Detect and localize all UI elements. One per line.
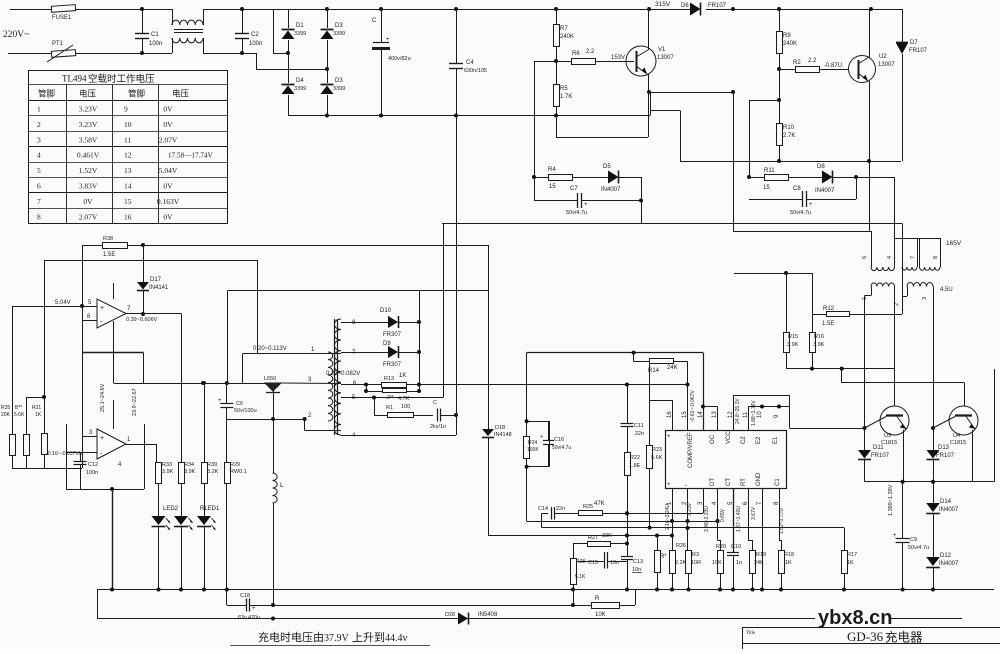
svg-text:R23: R23	[652, 447, 662, 453]
resistor R 10K	[573, 590, 575, 606]
svg-text:1n: 1n	[736, 560, 742, 566]
svg-text:8: 8	[933, 256, 939, 259]
svg-text:+: +	[584, 202, 588, 208]
transformer T1 core	[334, 319, 336, 435]
svg-text:630n/105: 630n/105	[464, 68, 487, 74]
svg-text:1.82~1.77U: 1.82~1.77U	[779, 508, 785, 534]
svg-text:+: +	[252, 606, 256, 612]
svg-text:400v/82u: 400v/82u	[388, 56, 411, 62]
diode D8 IN4007	[822, 171, 833, 184]
wire note underline	[230, 645, 430, 647]
wire Vcc rail y290.5	[228, 290, 488, 292]
svg-text:3399: 3399	[333, 86, 345, 92]
svg-text:0.461V: 0.461V	[77, 151, 100, 160]
svg-text:-0.61~-0.067V: -0.61~-0.067V	[690, 390, 696, 422]
svg-text:R7: R7	[560, 26, 568, 32]
wire -V rail jog to GND bus	[650, 92, 652, 116]
svg-text:C18: C18	[240, 593, 250, 599]
svg-text:C4: C4	[466, 60, 474, 66]
fuse FUSE1	[51, 5, 75, 13]
svg-text:R4: R4	[548, 167, 556, 173]
svg-text:3.9K: 3.9K	[787, 342, 799, 348]
transformer T2 secondary G2	[907, 282, 933, 286]
svg-text:7: 7	[37, 197, 41, 206]
resistor R29 RW0.1	[226, 419, 228, 462]
wire D5 node down to bus	[641, 177, 643, 224]
diode D7 FR107	[902, 9, 904, 42]
svg-text:4.5U: 4.5U	[940, 287, 953, 293]
resistor R16 3.9K	[812, 273, 814, 332]
diode D28 IN5408	[458, 613, 468, 625]
svg-text:3399: 3399	[333, 31, 345, 37]
wire bottom AC line	[8, 53, 51, 55]
svg-text:22n: 22n	[635, 431, 644, 437]
resistor R27 33K	[573, 543, 587, 545]
wire x488 feed column	[488, 245, 490, 429]
wire pin15 feedback line y384.5	[419, 384, 688, 386]
wire 5.04V rail to R35	[12, 306, 82, 308]
svg-text:C16: C16	[554, 437, 564, 443]
svg-text:R35: R35	[1, 405, 10, 411]
wire pin12 VCC stub	[733, 395, 735, 430]
svg-text:R10: R10	[783, 125, 795, 131]
svg-text:0.39~0.606V: 0.39~0.606V	[126, 317, 158, 323]
svg-text:GD-36: GD-36	[847, 629, 884, 644]
svg-text:V1: V1	[658, 47, 666, 53]
svg-text:23.9~22.67: 23.9~22.67	[132, 388, 138, 416]
svg-text:10R: 10R	[691, 560, 701, 566]
svg-text:IN4007: IN4007	[601, 187, 621, 193]
wire R24 column	[526, 353, 528, 436]
svg-text:DT: DT	[710, 478, 716, 486]
svg-text:20K: 20K	[1, 412, 11, 418]
svg-text:50v/100u: 50v/100u	[234, 408, 257, 414]
LED LED1	[152, 516, 166, 525]
svg-text:9: 9	[124, 105, 128, 114]
capacitor C13 10n	[621, 556, 633, 558]
svg-text:R1: R1	[386, 405, 393, 411]
resistor R33 3.9K	[158, 462, 160, 463]
wire R38 to x488 drop	[143, 245, 488, 247]
svg-text:+: +	[809, 202, 813, 208]
wire op2 output pin1	[126, 444, 157, 446]
wire D8 node down (x894)	[856, 177, 895, 179]
resistor R25 47K	[555, 513, 579, 515]
svg-text:R11: R11	[764, 168, 775, 174]
svg-text:D7: D7	[910, 40, 918, 46]
svg-text:5: 5	[37, 166, 41, 175]
wire pin15 stub	[687, 385, 689, 431]
wire rectified node x419	[419, 291, 421, 392]
wire T2 top connections	[895, 238, 941, 240]
svg-text:33K: 33K	[602, 533, 612, 539]
transformer T2 secondary G1	[871, 283, 895, 287]
wire +V rail	[327, 9, 456, 11]
wire bus y605	[273, 605, 573, 607]
svg-text:管脚: 管脚	[128, 89, 145, 99]
wire V2 ground return y161	[680, 161, 901, 163]
svg-text:10n: 10n	[610, 560, 619, 566]
svg-text:C15: C15	[588, 560, 598, 566]
svg-text:100K: 100K	[527, 447, 539, 453]
svg-text:3.23V: 3.23V	[687, 502, 693, 516]
svg-text:C8: C8	[793, 186, 801, 192]
diode D13 FR107	[933, 428, 935, 450]
wire pin7 GND column	[762, 488, 764, 590]
svg-text:R25: R25	[583, 504, 593, 510]
svg-text:4.7K: 4.7K	[398, 396, 410, 402]
wire AC1 drop to bridge	[203, 53, 242, 55]
capacitor C4 630n/105	[456, 9, 458, 63]
svg-text:D5: D5	[603, 164, 611, 170]
op-amp U5B	[97, 429, 126, 459]
wire tap4 line	[341, 435, 456, 437]
capacitor C7 50v/4.7u	[534, 177, 536, 201]
wire R24 node to pin4 line	[526, 467, 528, 521]
resistor R12 1.5E	[812, 314, 826, 316]
svg-text:U3: U3	[884, 433, 891, 439]
resistor R6 2.2	[556, 61, 571, 63]
svg-text:3.83V: 3.83V	[79, 182, 98, 191]
svg-text:-: -	[685, 433, 687, 439]
svg-text:11: 11	[124, 135, 131, 144]
svg-text:50v/4.7u: 50v/4.7u	[566, 210, 587, 216]
svg-text:3.23V: 3.23V	[79, 120, 98, 129]
svg-text:R19: R19	[756, 552, 766, 558]
resistor R17 1K	[844, 528, 846, 550]
wire R38 left drop to 5.04V node	[82, 245, 84, 306]
wire heavy rail y352.6	[527, 352, 703, 354]
wire winding sense line y353.5	[243, 353, 341, 355]
logo ybx8.cn	[815, 606, 889, 626]
resistor R10 2.7K	[779, 69, 781, 100]
svg-text:D13: D13	[938, 445, 950, 451]
svg-text:0.22~0.082V: 0.22~0.082V	[326, 371, 360, 377]
resistor R20 10K	[717, 488, 719, 540]
svg-text:L: L	[280, 482, 284, 489]
svg-text:IN4141: IN4141	[149, 285, 169, 291]
capacitor C14 22n	[542, 513, 548, 515]
svg-text:50v/4.7u: 50v/4.7u	[552, 445, 571, 451]
svg-text:R38: R38	[103, 236, 113, 242]
svg-text:R34: R34	[184, 462, 194, 468]
svg-text:IN5408: IN5408	[478, 612, 498, 618]
svg-text:1.5E: 1.5E	[103, 252, 115, 258]
svg-text:FUSE1: FUSE1	[52, 15, 72, 21]
inductor L	[273, 419, 275, 473]
svg-text:2.07V: 2.07V	[79, 212, 98, 221]
svg-text:R22: R22	[630, 455, 640, 461]
wire V2 emitter bottom return	[733, 92, 735, 231]
svg-text:PT1: PT1	[52, 41, 64, 47]
svg-text:1K: 1K	[785, 560, 792, 566]
svg-text:FR107: FR107	[909, 48, 928, 54]
svg-text:D11: D11	[873, 445, 884, 451]
transformer T2 top winding W2	[917, 238, 919, 267]
svg-text:IN4007: IN4007	[939, 507, 959, 513]
svg-text:3399: 3399	[294, 31, 306, 37]
wire battery bus y618.5	[97, 618, 962, 620]
svg-text:10n: 10n	[632, 567, 641, 573]
wire heavy ground drop x112	[112, 489, 114, 590]
svg-text:13007: 13007	[878, 62, 895, 68]
capacitor C10 1n	[733, 488, 735, 552]
svg-text:C1: C1	[775, 478, 781, 486]
op-amp U5A comparator	[97, 299, 126, 328]
svg-text:E2: E2	[756, 436, 762, 444]
wire feedback line y527.6	[542, 527, 844, 529]
svg-text:Title: Title	[746, 631, 756, 636]
svg-text:0V: 0V	[163, 212, 173, 221]
resistor R39 8.2K	[204, 383, 206, 462]
svg-text:+: +	[100, 435, 104, 442]
svg-text:R33: R33	[162, 462, 172, 468]
svg-text:153V: 153V	[611, 55, 625, 61]
LED LED2	[174, 516, 188, 525]
resistor R2 2.2	[779, 69, 795, 71]
svg-text:50v/4.7u: 50v/4.7u	[908, 545, 929, 551]
svg-text:6: 6	[862, 256, 868, 259]
svg-text:+: +	[667, 434, 671, 440]
svg-text:D3: D3	[335, 23, 343, 29]
resistor R35 20K	[12, 306, 14, 434]
wire output node y481.7	[865, 481, 995, 483]
resistor R31 1K	[26, 397, 44, 399]
svg-text:4: 4	[37, 151, 41, 160]
resistor R26 2.2K	[672, 488, 674, 550]
svg-text:FR107: FR107	[871, 453, 890, 459]
wire R10 top to R11 branch	[749, 100, 779, 102]
svg-text:240K: 240K	[560, 34, 574, 40]
svg-text:R: R	[595, 596, 600, 602]
svg-text:C13: C13	[633, 559, 643, 565]
svg-text:R17: R17	[847, 552, 857, 558]
svg-text:OC: OC	[710, 434, 716, 444]
svg-text:GND: GND	[756, 472, 762, 486]
thermistor PT1	[51, 50, 75, 58]
svg-text:22n: 22n	[556, 506, 565, 512]
svg-text:R26: R26	[676, 543, 686, 549]
svg-text:10K: 10K	[595, 612, 606, 618]
svg-text:44.4v: 44.4v	[385, 633, 408, 644]
wire y223 corner down x902	[902, 224, 904, 315]
wire x257 sense drop	[257, 260, 259, 354]
svg-text:3: 3	[37, 135, 41, 144]
svg-text:IN4007: IN4007	[815, 188, 835, 194]
svg-text:37.9V: 37.9V	[324, 633, 350, 644]
svg-text:1.88~1.76V: 1.88~1.76V	[751, 400, 757, 426]
svg-text:D18: D18	[495, 425, 505, 431]
svg-text:ybx8.cn: ybx8.cn	[818, 607, 892, 629]
svg-text:1K: 1K	[847, 560, 854, 566]
svg-text:D28: D28	[445, 612, 455, 618]
diode D17 IN4141	[143, 245, 145, 282]
svg-text:U2: U2	[879, 54, 887, 60]
diode D9 FR307	[341, 352, 388, 354]
svg-text:IN4148: IN4148	[494, 432, 512, 438]
svg-text:3399: 3399	[294, 86, 306, 92]
wire -V rail	[288, 115, 650, 117]
svg-text:IN4007: IN4007	[939, 561, 959, 567]
svg-text:L650: L650	[264, 376, 276, 382]
wire AC2 step to bridge	[242, 53, 256, 55]
wire top AC line	[10, 9, 51, 11]
svg-text:E1: E1	[773, 436, 779, 444]
svg-text:-0.16~-0.037Vb: -0.16~-0.037Vb	[46, 451, 82, 457]
svg-text:2.16~3.24U: 2.16~3.24U	[665, 504, 671, 530]
wire op1 upper feedback y260	[44, 260, 257, 262]
svg-text:13: 13	[124, 166, 132, 175]
svg-text:充电时电压由: 充电时电压由	[258, 630, 324, 644]
transformer T1 primary winding	[328, 352, 333, 421]
wire collector bus y382.9	[841, 369, 843, 383]
svg-text:D14: D14	[940, 499, 952, 505]
wire op2 minus input	[66, 452, 97, 454]
svg-text:D12: D12	[940, 553, 952, 559]
diode D18 IN4148	[482, 429, 494, 436]
wire op1 output pin7	[126, 313, 143, 315]
svg-text:C9: C9	[910, 537, 917, 543]
svg-text:8.2K: 8.2K	[207, 469, 219, 475]
resistor R19 24K	[748, 488, 750, 540]
svg-text:100: 100	[401, 404, 410, 410]
svg-text:+: +	[667, 482, 671, 488]
diode D1 3399	[288, 9, 290, 28]
svg-text:+: +	[218, 398, 222, 404]
wire op1 pin6 loop	[82, 352, 144, 354]
svg-text:10K: 10K	[712, 560, 722, 566]
svg-text:上升到: 上升到	[352, 631, 385, 644]
wire pin13 stub	[703, 406, 718, 408]
wire pin4 softstart line y521	[527, 521, 718, 523]
svg-text:D10: D10	[380, 308, 392, 314]
svg-text:2.2: 2.2	[586, 49, 595, 55]
svg-text:24K: 24K	[667, 365, 678, 371]
svg-text:FR307: FR307	[383, 332, 402, 338]
svg-text:R9: R9	[783, 33, 791, 39]
wire R15 R16 top bus y273	[734, 273, 812, 275]
svg-text:0.65V: 0.65V	[720, 508, 726, 522]
wire op1 pin6 input	[82, 320, 97, 322]
wire AC to bridge top	[203, 9, 327, 11]
wire divider bottom bus	[12, 468, 82, 470]
svg-text:电压: 电压	[79, 89, 97, 99]
capacitor C6 50v/100u	[226, 383, 228, 404]
wire op2 plus input	[82, 436, 97, 438]
resistor R28 5.1K	[573, 544, 575, 559]
svg-text:R29: R29	[230, 462, 240, 468]
svg-text:C2: C2	[251, 32, 259, 38]
svg-text:R6: R6	[572, 51, 580, 57]
svg-text:2kv/1n: 2kv/1n	[430, 424, 446, 430]
svg-text:LED2: LED2	[163, 506, 179, 512]
svg-text:D8: D8	[817, 164, 825, 170]
svg-text:16: 16	[124, 212, 132, 221]
svg-text:C10: C10	[731, 544, 741, 550]
transistor V2 13007	[849, 56, 876, 83]
diode D10 FR307	[341, 322, 388, 324]
wire horizontal bus y223	[442, 223, 902, 225]
diode D14 IN4007	[933, 482, 935, 503]
svg-text:U4: U4	[953, 433, 960, 439]
resistor R7 240K	[556, 9, 558, 24]
svg-text:C14: C14	[538, 506, 548, 512]
resistor R1 100	[374, 398, 376, 416]
svg-text:FR107: FR107	[708, 3, 727, 9]
resistor B*** 5.6K	[26, 397, 28, 434]
svg-text:0.163V: 0.163V	[157, 197, 180, 206]
wire V1 emitter to right node	[649, 92, 733, 94]
wire C13 column	[627, 513, 629, 556]
svg-text:+: +	[893, 533, 897, 539]
svg-text:CT: CT	[726, 478, 732, 486]
resistor R*	[657, 536, 659, 551]
box around op-amp2	[66, 424, 68, 489]
shunt regulator L650	[265, 383, 281, 391]
svg-text:D6: D6	[681, 3, 689, 9]
common-mode choke L0	[172, 9, 174, 25]
capacitor C16 50v/4.7u	[527, 421, 550, 423]
svg-text:8: 8	[37, 212, 41, 221]
resistor R11 15	[749, 177, 764, 179]
svg-text:空载时工作电压: 空载时工作电压	[88, 73, 155, 85]
resistor R13 1K	[341, 384, 381, 386]
svg-text:R18: R18	[784, 552, 794, 558]
svg-text:100n: 100n	[249, 41, 262, 47]
resistor R38 1.5E	[82, 245, 102, 247]
svg-text:1.7K: 1.7K	[560, 94, 572, 100]
svg-text:C2: C2	[741, 436, 747, 444]
svg-text:C: C	[372, 18, 377, 24]
wire tap2 line y419	[227, 419, 305, 421]
svg-text:+: +	[100, 305, 104, 312]
svg-text:R31: R31	[32, 405, 41, 411]
svg-text:C1: C1	[151, 32, 159, 38]
svg-text:1: 1	[37, 105, 41, 114]
svg-text:10: 10	[757, 411, 763, 418]
capacitor C18 63v/470u	[226, 590, 228, 606]
svg-text:1: 1	[862, 297, 868, 300]
svg-text:RT: RT	[741, 478, 747, 486]
svg-text:165V: 165V	[946, 240, 962, 247]
wire V1 emitter feedback loop	[648, 92, 650, 137]
wire tap5 line	[341, 397, 443, 399]
svg-text:+: +	[540, 434, 543, 440]
transistor U3 C1815	[880, 406, 909, 435]
resistor R23 5.6K	[649, 361, 651, 445]
svg-text:315V: 315V	[655, 1, 671, 8]
svg-text:14: 14	[124, 182, 132, 191]
capacitor C 400v/82u	[381, 9, 383, 42]
svg-text:1K: 1K	[399, 373, 406, 379]
capacitor C2 100n	[242, 9, 244, 33]
capacitor C15 10n	[577, 561, 604, 563]
capacitor C11 22n	[627, 385, 629, 424]
svg-text:FR307: FR307	[383, 362, 402, 368]
svg-text:R15: R15	[788, 334, 798, 340]
LED RLED1	[197, 516, 211, 525]
wire op1 pin5 input 5.04V	[82, 306, 97, 308]
resistor R5 1.7K	[556, 61, 558, 84]
wire pin16 stub	[650, 400, 672, 402]
svg-text:7: 7	[910, 256, 916, 259]
svg-text:3.9K: 3.9K	[162, 469, 174, 475]
svg-text:12: 12	[124, 151, 132, 160]
svg-text:100n: 100n	[86, 470, 98, 476]
svg-text:3.23V: 3.23V	[79, 105, 98, 114]
svg-text:2.2: 2.2	[808, 58, 817, 64]
svg-text:2: 2	[37, 120, 41, 129]
